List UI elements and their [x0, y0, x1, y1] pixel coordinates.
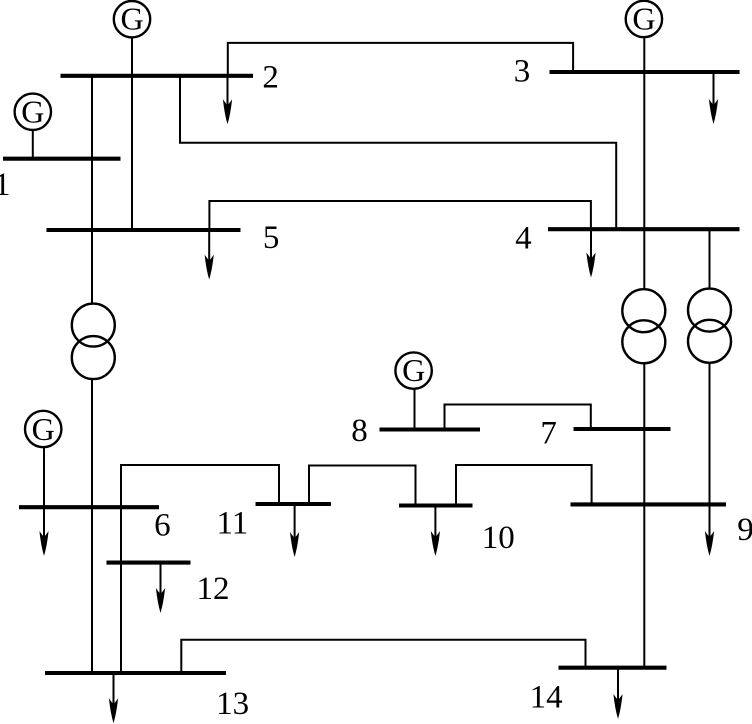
wire line 9-10 [456, 465, 592, 506]
wire generator G3 lead to bus 3 [643, 38, 645, 72]
generator G8 [395, 352, 431, 389]
load arrow at bus 4 [586, 229, 595, 277]
svg-text:G: G [120, 1, 143, 37]
wire generator G6 lead to bus 6 [43, 448, 45, 507]
transformer T4-7 [622, 289, 665, 363]
load arrow at bus 10 [431, 506, 440, 557]
svg-text:6: 6 [154, 508, 171, 544]
wire line 7-8 [445, 405, 591, 430]
load arrow at bus 3 [709, 71, 718, 124]
svg-text:2: 2 [262, 60, 279, 96]
wire line 9-14 [643, 504, 645, 667]
generator G2 [114, 1, 150, 38]
wire generator G2 lead to bus 2 [131, 38, 133, 76]
svg-text:1: 1 [0, 167, 11, 203]
svg-text:3: 3 [514, 54, 531, 90]
wire line 4-5 [209, 201, 591, 230]
load arrow at bus 6 [39, 507, 48, 556]
svg-text:11: 11 [217, 506, 249, 542]
wire line 2-5 [131, 76, 133, 230]
load arrow at bus 14 [613, 668, 622, 719]
svg-text:13: 13 [216, 686, 249, 722]
svg-text:9: 9 [737, 512, 752, 548]
wire line 6-12 [120, 507, 122, 562]
svg-text:G: G [402, 352, 425, 388]
wire line 13-14 [181, 640, 585, 673]
wire line 6-11 [121, 465, 279, 507]
bus 4 [548, 227, 740, 231]
wire bus 4 to transformer T4-9 [709, 229, 711, 288]
svg-text:12: 12 [197, 571, 230, 607]
wire bus 5 to transformer T5-6 [91, 230, 93, 305]
wire generator G8 lead to bus 8 [414, 389, 416, 429]
load arrow at bus 12 [156, 563, 165, 613]
bus 14 [559, 666, 667, 670]
svg-text:8: 8 [351, 413, 368, 449]
wire line 1-5 [91, 159, 93, 231]
load arrow at bus 11 [290, 504, 299, 557]
bus 11 [256, 502, 332, 506]
wire transformer T4-9 to bus 9 [709, 363, 711, 505]
wire line 10-11 [309, 466, 416, 506]
load arrow at bus 2 [223, 76, 232, 125]
generator G1 [15, 93, 51, 130]
wire line 1-2 [91, 76, 93, 159]
load arrow at bus 9 [705, 504, 714, 556]
wire line 7-9 [643, 429, 645, 504]
svg-text:G: G [32, 411, 55, 447]
load arrow at bus 13 [109, 673, 118, 723]
wire bus 4 to transformer T4-7 [643, 229, 645, 289]
svg-text:10: 10 [482, 520, 515, 556]
svg-text:G: G [21, 93, 44, 129]
wire generator G1 lead to bus 1 [32, 131, 34, 159]
svg-text:7: 7 [540, 416, 557, 452]
svg-text:4: 4 [515, 221, 532, 257]
wire transformer T4-7 to bus 7 [643, 363, 645, 429]
bus 13 [45, 671, 226, 675]
bus 2 [61, 74, 254, 78]
wire line 6-13 [91, 507, 93, 673]
bus 7 [574, 427, 671, 431]
transformer T4-9 [688, 289, 731, 363]
generator G3 [626, 1, 662, 38]
load arrow at bus 5 [205, 230, 214, 280]
bus 10 [399, 503, 473, 507]
wire line 2-3 [228, 43, 573, 76]
bus 5 [47, 228, 241, 232]
svg-text:5: 5 [263, 220, 280, 256]
bus 6 [19, 505, 159, 509]
transformer T5-6 [72, 304, 115, 380]
bus 1 [3, 157, 121, 161]
svg-text:14: 14 [530, 679, 563, 715]
wire line 12-13 [120, 563, 122, 673]
svg-text:G: G [632, 1, 655, 37]
wire line 3-4 [643, 71, 645, 229]
generator G6 [25, 411, 61, 447]
bus 9 [571, 502, 727, 506]
bus 8 [380, 427, 481, 431]
bus 3 [550, 70, 740, 74]
wire transformer T5-6 to bus 6 [91, 378, 93, 507]
wire line 2-4 [180, 76, 616, 229]
bus 12 [107, 561, 191, 565]
